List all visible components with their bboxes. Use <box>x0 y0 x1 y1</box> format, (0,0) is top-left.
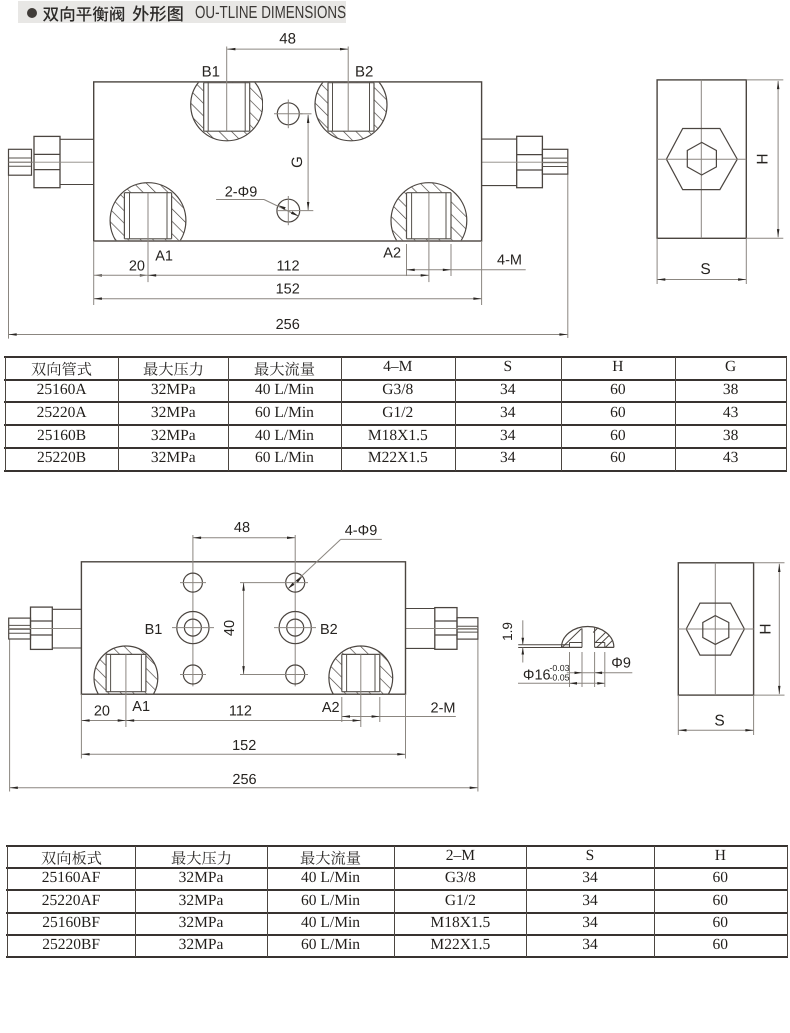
dim 1.9 <box>522 620 524 644</box>
svg-text:40: 40 <box>222 620 238 636</box>
dim H 2 <box>754 562 785 564</box>
svg-text:152: 152 <box>232 738 256 754</box>
centerline col B2 <box>294 535 296 686</box>
svg-text:4-M: 4-M <box>497 253 522 269</box>
right connector big rect <box>517 136 543 187</box>
table 2 <box>6 845 788 847</box>
svg-text:G: G <box>289 156 306 168</box>
header CJK 外形图 <box>132 0 184 30</box>
svg-text:A1: A1 <box>132 699 150 715</box>
svg-text:2-Φ9: 2-Φ9 <box>225 185 258 201</box>
counterbore step <box>570 642 583 644</box>
node A1 centerline <box>147 193 149 282</box>
svg-text:48: 48 <box>279 31 296 48</box>
svg-text:20: 20 <box>129 259 145 275</box>
left connector big rect <box>34 136 60 187</box>
dim 48 <box>226 47 228 132</box>
hex nut outer <box>666 129 737 190</box>
dim 256 d2 <box>10 787 478 789</box>
dim 2-M <box>341 697 343 722</box>
dim 48 d2 <box>193 537 295 539</box>
dome slot (through hole) <box>581 628 583 647</box>
right connector small rect <box>542 149 567 174</box>
table 1 <box>4 356 787 358</box>
hex socket inner 2 <box>703 616 729 645</box>
detail surface lines <box>518 644 569 646</box>
wire 256 left extension <box>8 175 10 338</box>
svg-text:2-M: 2-M <box>431 701 456 717</box>
svg-text:112: 112 <box>276 259 299 275</box>
header latin OU-TLINE DIMENSIONS <box>195 2 346 23</box>
dim S 2 <box>677 695 679 735</box>
node A2 centerline d2 <box>360 654 362 727</box>
hex centerline <box>657 158 746 160</box>
svg-text:S: S <box>714 713 724 730</box>
node A2 centerline <box>428 193 430 282</box>
port B2 circle d2 <box>279 612 311 644</box>
svg-text:A2: A2 <box>383 246 401 262</box>
side view 2 centerline <box>714 563 716 695</box>
dim S <box>656 238 658 284</box>
valve body rect <box>94 82 482 241</box>
node A1 centerline d2 <box>125 654 127 727</box>
header bullet <box>27 8 37 18</box>
dim 256 <box>9 334 568 336</box>
left connector small rect d2 <box>9 618 31 639</box>
right connector stem d2 <box>406 608 435 610</box>
port B1 circle d2 <box>177 612 209 644</box>
hole bottom phi9 <box>277 199 300 222</box>
dim 20 and 112 <box>93 241 95 305</box>
left connector big rect d2 <box>31 607 53 649</box>
svg-text:B1: B1 <box>145 622 163 638</box>
dim 152 d2 <box>405 694 407 758</box>
dim 20 and 112 d2 <box>80 694 82 758</box>
left connector stem lines <box>60 138 94 140</box>
dim 40 <box>243 583 245 675</box>
right connector small rect d2 <box>457 618 478 639</box>
svg-text:B1: B1 <box>202 64 220 81</box>
hole top-left <box>183 573 202 592</box>
right connector stem lines <box>482 138 517 140</box>
detail dome <box>562 627 614 648</box>
svg-text:A1: A1 <box>155 249 173 265</box>
side view 2 body <box>678 563 753 695</box>
header bar <box>18 1 346 23</box>
svg-text:20: 20 <box>94 704 110 720</box>
hole top phi9 <box>277 103 299 125</box>
hex centerline 2 <box>678 628 753 630</box>
side view centerline <box>700 80 702 238</box>
svg-text:256: 256 <box>276 317 300 333</box>
hole bottom-right <box>286 665 305 684</box>
svg-text:112: 112 <box>229 704 252 720</box>
wire 256 right extension <box>567 174 569 338</box>
wire 256 left extension d2 <box>9 639 11 792</box>
right connector big rect d2 <box>435 608 457 650</box>
dim 152 <box>481 241 483 305</box>
dome base line <box>562 646 583 648</box>
svg-text:152: 152 <box>276 282 300 298</box>
dim phi9 detail <box>581 652 583 687</box>
svg-text:H: H <box>755 153 772 164</box>
svg-text:-0.05: -0.05 <box>550 673 570 683</box>
wire 256 right extension d2 <box>477 639 479 791</box>
svg-text:Φ9: Φ9 <box>611 656 631 672</box>
side view body <box>657 80 746 238</box>
left connector stem d2 <box>52 608 81 610</box>
svg-text:4-Φ9: 4-Φ9 <box>345 523 378 539</box>
hex socket inner <box>687 142 716 175</box>
svg-text:A2: A2 <box>322 700 340 716</box>
svg-text:S: S <box>700 261 710 278</box>
centerline col B1 <box>192 535 194 686</box>
svg-text:1.9: 1.9 <box>500 622 515 641</box>
hole bottom-left <box>183 665 202 684</box>
header CJK 双向平衡阀 <box>42 1 126 30</box>
hex nut outer 2 <box>686 603 744 655</box>
svg-text:B2: B2 <box>355 64 373 81</box>
dim G <box>299 113 312 115</box>
dim phi16 detail <box>569 652 571 687</box>
svg-text:-0.03: -0.03 <box>550 663 570 673</box>
svg-text:Φ16: Φ16 <box>523 668 551 684</box>
svg-text:256: 256 <box>232 772 256 788</box>
left connector small rect <box>9 149 32 175</box>
hole top-right <box>286 573 305 592</box>
dim 4-M <box>406 244 408 276</box>
dim H <box>746 79 783 81</box>
svg-text:48: 48 <box>234 520 250 536</box>
svg-text:B2: B2 <box>320 622 338 638</box>
valve body rect d2 <box>81 562 405 694</box>
svg-text:H: H <box>758 623 775 634</box>
